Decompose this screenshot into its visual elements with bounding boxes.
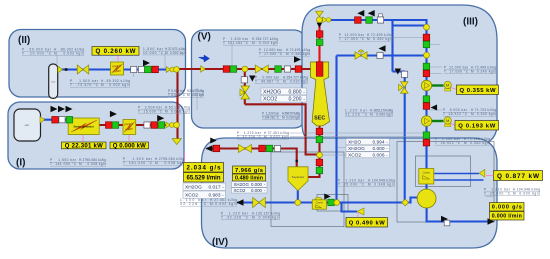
sensor green (box I row2) <box>112 122 119 129</box>
label Q 0.000 kW <box>110 142 149 149</box>
svg-text:-: - <box>303 89 305 95</box>
wire blue pipe separator bottom outlet <box>297 190 299 202</box>
sensor green 2 (box V) <box>275 66 282 73</box>
heater steam generator (box I) <box>68 118 99 135</box>
svg-text:Separator: Separator <box>292 175 305 179</box>
svg-text:M 0.002 kg/s: M 0.002 kg/s <box>210 202 237 206</box>
junction dot <box>65 68 68 71</box>
label Q 0.193 kW <box>455 121 499 131</box>
svg-text:0.017: 0.017 <box>208 185 220 191</box>
svg-text:M: M <box>446 118 449 123</box>
vessel H2O tank <box>14 109 41 141</box>
sensor red (box IV top row) <box>213 145 220 152</box>
svg-text:M 0.008 kg/s: M 0.008 kg/s <box>252 216 280 220</box>
svg-text:T 17.000 °C: T 17.000 °C <box>339 37 365 41</box>
system boundary box (I) <box>8 102 184 169</box>
leader pink to flow label <box>184 152 186 163</box>
svg-text:M 0.010 kg/s: M 0.010 kg/s <box>282 116 300 120</box>
wire dark red pipe box IV top row <box>207 149 297 167</box>
leader line pump outlet measurement <box>493 193 495 222</box>
svg-text:XCO2: XCO2 <box>234 188 247 193</box>
outlet triangle H2O vessel <box>40 116 45 123</box>
flow arrow left 3 <box>379 45 386 52</box>
wire blue pipe cooler drain branch <box>342 203 358 212</box>
svg-text:Q 0.000 kW: Q 0.000 kW <box>113 144 146 150</box>
svg-text:Q 0.193 kW: Q 0.193 kW <box>458 123 495 129</box>
leader line box V text1 <box>231 44 233 66</box>
svg-text:T 161.000 °C: T 161.000 °C <box>123 161 153 165</box>
svg-text:0.000: 0.000 <box>372 146 384 152</box>
sensor green (box I row2b) <box>158 122 165 129</box>
leader ticks compressor1 text <box>430 66 442 68</box>
sensor red (box V) <box>223 66 230 73</box>
leader pink heater to Q label <box>117 55 119 61</box>
wire blue vertical pipe compressor chain x=426.5 <box>425 27 427 190</box>
pump circle <box>417 189 436 208</box>
flow arrow 3 <box>66 106 73 113</box>
inlet triangle (box V) <box>201 66 206 73</box>
svg-text:M 0.340 kg/s: M 0.340 kg/s <box>286 52 310 56</box>
flow arrow right small <box>210 138 217 144</box>
valve V4 (cooler row) <box>253 198 266 208</box>
flow arrow cooler <box>324 194 331 200</box>
label 65.529 l/min <box>184 173 224 183</box>
wire dark red pipe box II to box V main line <box>177 68 312 70</box>
sensor green (cooler row) <box>328 199 335 206</box>
svg-text:0.800: 0.800 <box>289 89 302 95</box>
valve 3-way (x405 line) <box>401 82 409 94</box>
wire bright red pipe into SEC top <box>318 20 320 63</box>
svg-text:65.529 l/min: 65.529 l/min <box>187 175 221 181</box>
heater E2 electric heater (box I) <box>123 120 136 135</box>
valve white pump outlet <box>444 220 450 226</box>
svg-text:(IV): (IV) <box>212 237 228 248</box>
svg-text:T 32.226 °C: T 32.226 °C <box>221 216 249 220</box>
wire blue pipe cooler row (box IV) <box>237 201 406 203</box>
svg-text:M 0.348 kg/s: M 0.348 kg/s <box>368 182 395 186</box>
sensor green (SEC feed) <box>316 39 323 46</box>
svg-text:M 0.010 kg/s: M 0.010 kg/s <box>187 93 204 97</box>
valve white (box I row2) <box>144 122 150 128</box>
valve control with dome (box III) <box>355 52 367 60</box>
sensor red (chain3) <box>423 103 430 110</box>
svg-text:XCO2: XCO2 <box>348 153 361 159</box>
shaft compressor 1 <box>432 84 444 86</box>
svg-text:T 151.164 °C: T 151.164 °C <box>223 41 249 45</box>
wire blue duct line air cooler lower <box>434 179 484 181</box>
air cooler box (box IV right) <box>419 169 434 185</box>
node mixing (box V) <box>242 66 248 72</box>
svg-text:M 0.060 kg/s: M 0.060 kg/s <box>370 113 393 117</box>
sensor green (box II) <box>145 66 152 73</box>
label Q 0.260 kW <box>92 47 139 56</box>
svg-text:M 0.002 kg/s: M 0.002 kg/s <box>101 83 130 87</box>
wire blue vertical pipe x=405.5 down to pump row <box>404 72 406 203</box>
label 2.034 g/s <box>184 163 224 173</box>
sensor red (chain2) <box>423 70 430 77</box>
svg-text:SEC: SEC <box>314 116 325 122</box>
frame around pump/cooler subsystem <box>397 142 494 223</box>
svg-text:T 161.000 °C: T 161.000 °C <box>50 162 77 166</box>
svg-text:Q 0.260 kW: Q 0.260 kW <box>96 48 136 55</box>
heater E1 electric heater (box II) <box>111 62 124 75</box>
separator vessel <box>288 167 308 191</box>
frame around separator/cooler subsystem <box>271 152 344 227</box>
system boundary box (III) <box>302 5 497 144</box>
svg-text:-: - <box>303 97 305 103</box>
junction dot separator feed <box>296 160 298 162</box>
label Q 0.355 kW <box>457 85 499 95</box>
wire blue pipe H2O vessel outlet (box I) <box>41 119 73 121</box>
wire blue pipe parallel return line <box>391 20 393 72</box>
svg-text:0.000: 0.000 <box>251 188 263 193</box>
svg-text:M 0.010 kg/s: M 0.010 kg/s <box>283 80 308 84</box>
svg-text:0.000 g/s: 0.000 g/s <box>492 205 522 211</box>
svg-text:0.006: 0.006 <box>372 153 384 159</box>
label 0.480 l/min <box>233 174 266 181</box>
svg-text:T 0.000 °C: T 0.000 °C <box>168 93 186 97</box>
svg-text:2.034 g/s: 2.034 g/s <box>187 164 222 171</box>
flow arrow down (box V) <box>249 76 256 82</box>
svg-text:T 16.922 °C: T 16.922 °C <box>443 112 468 116</box>
svg-text:10.000 °C: 10.000 °C <box>143 51 164 55</box>
leader line pair to compressor chain <box>290 132 425 134</box>
column SEC separator <box>311 62 330 126</box>
svg-text:XH2O: XH2O <box>348 139 361 145</box>
valve white (box I row1) <box>59 117 65 123</box>
sensor green (box I row1) <box>66 117 73 124</box>
flow arrow left 2 <box>368 10 375 16</box>
sensor green (chain3) <box>423 96 430 103</box>
valve small right of node <box>323 17 327 23</box>
svg-text:Q 0.355 kW: Q 0.355 kW <box>460 88 496 94</box>
flow arrow left (box IV top row) <box>206 145 213 152</box>
label XCO2 0.200 <box>261 95 307 102</box>
svg-text:M 0.340 kg/s: M 0.340 kg/s <box>367 37 393 41</box>
leader line XH2O label stack <box>337 147 346 149</box>
wire dark red vertical from node down through white valve and 3-way valve (box V) <box>244 69 246 104</box>
label XH2OG 0.000 <box>346 145 390 151</box>
label XCO2 0.006 <box>346 152 390 158</box>
flow arrow down (x405 line) <box>395 69 402 75</box>
sensor red (SEC chain low1) <box>316 128 323 135</box>
svg-text:T 15.000 °C: T 15.000 °C <box>138 110 163 114</box>
valve white below node (box V) <box>241 77 247 83</box>
svg-text:M 0.008 kg/s: M 0.008 kg/s <box>155 161 185 165</box>
wire dark red branch valve to vent node (box I) <box>169 124 178 126</box>
flow arrow down small <box>317 23 323 28</box>
node junction SEC chain <box>317 152 323 158</box>
compressor stage 2 <box>421 116 431 126</box>
leader ticks compressor2 text <box>430 109 442 111</box>
svg-text:Q 0.490 kW: Q 0.490 kW <box>349 220 386 226</box>
svg-text:0.000 l/min: 0.000 l/min <box>492 214 522 220</box>
flow arrow into SEC <box>294 56 301 63</box>
sensor green (chain1) <box>423 41 430 48</box>
svg-text:M 0.340 kg/s: M 0.340 kg/s <box>471 112 496 116</box>
sensor red 2 (box IV top row) <box>259 145 266 152</box>
svg-text:T 25.000 °C: T 25.000 °C <box>338 182 365 186</box>
leader pink motor1 to Q label <box>451 88 457 90</box>
svg-text:M 0.008 kg/s: M 0.008 kg/s <box>165 110 190 114</box>
label Q 22.301 kW <box>62 142 107 149</box>
motor M1 <box>445 89 451 91</box>
valve relief (box III top row) <box>377 17 383 23</box>
svg-text:Q 0.877 kW: Q 0.877 kW <box>497 173 540 180</box>
svg-text:T 20.000 °C: T 20.000 °C <box>22 51 52 55</box>
valve V1 (box II) <box>77 65 89 74</box>
sensor green (SEC chain low2) <box>316 167 323 174</box>
label XCO2 0.000 (2) <box>232 188 268 193</box>
svg-text:M 0.002 kg/s: M 0.002 kg/s <box>165 51 186 55</box>
svg-text:H2O: H2O <box>25 125 30 127</box>
svg-text:0.000: 0.000 <box>251 182 263 187</box>
svg-text:0.994: 0.994 <box>372 139 384 145</box>
vessel CO2 cylinder <box>49 64 58 98</box>
node mixing vent (box I) <box>174 122 180 128</box>
node diamond pump inlet <box>402 199 409 206</box>
sensor red (box I row2b) <box>151 122 158 129</box>
svg-text:M 0.340 kg/s: M 0.340 kg/s <box>471 70 496 74</box>
wire blue pipe control valve row (box III) <box>337 54 427 56</box>
svg-text:T 104.781 °C: T 104.781 °C <box>262 116 280 120</box>
system boundary box (V) <box>192 30 307 128</box>
svg-text:M: M <box>446 83 449 88</box>
flow arrow left 4 <box>431 105 438 111</box>
node junction 2 (box III right) <box>424 52 430 58</box>
valve white W2 (box II) <box>138 66 144 72</box>
wire dark red branch 3-way valve to SEC bottom chain <box>245 104 317 154</box>
valve white (box V) <box>284 66 290 72</box>
wire dark red pipe SEC bottom chain <box>307 124 320 177</box>
label 0.000 g/s <box>490 203 525 212</box>
svg-text:T 17.000 °C: T 17.000 °C <box>444 70 469 74</box>
wire dark red pipe steam generator outlet (box I) <box>99 124 177 126</box>
node cooler outlet <box>334 200 340 206</box>
sensor green (SEC chain low1) <box>316 136 323 143</box>
valve white (control row) <box>377 52 383 58</box>
svg-text:M 0.000 kg/s: M 0.000 kg/s <box>513 192 540 196</box>
svg-text:T 32.226 °C: T 32.226 °C <box>237 135 262 139</box>
system boundary box (IV) <box>202 138 498 248</box>
svg-text:(V): (V) <box>198 32 211 43</box>
flow arrow pump outlet <box>441 216 448 223</box>
sensor red (box I row2) <box>106 122 113 129</box>
sensor red (chain1) <box>423 34 430 41</box>
svg-text:Steam generator: Steam generator <box>73 124 93 128</box>
label XH2OG 0.017 <box>183 183 226 191</box>
compressor stage 1 <box>421 80 431 90</box>
svg-text:32.226 °C: 32.226 °C <box>345 113 368 117</box>
sensor red (box I row1) <box>52 117 59 124</box>
sensor red (SEC feed) <box>316 31 323 38</box>
svg-text:M 0.008 kg/s: M 0.008 kg/s <box>79 162 106 166</box>
flow arrow left (cooler row) <box>237 199 244 206</box>
svg-text:(III): (III) <box>463 17 478 28</box>
vent funnel down (box I) <box>172 139 181 145</box>
label 7.966 g/s <box>233 166 266 174</box>
vent horn air cooler <box>479 169 485 177</box>
svg-text:XH2OG: XH2OG <box>348 146 365 152</box>
fan icon blue arrow (box V inlet) <box>199 55 210 62</box>
svg-text:T 17.000 °C: T 17.000 °C <box>259 52 283 56</box>
pump glyph small (box II) <box>166 67 170 73</box>
leader line box II text3 <box>164 54 166 69</box>
label XH2OG 0.000 (2) <box>232 182 268 188</box>
sensor green (box V) <box>230 66 237 73</box>
wire blue pipe CO2 vessel outlet (box II) <box>58 68 167 70</box>
svg-text:T 16.922 °C: T 16.922 °C <box>435 141 461 145</box>
wire dark red vertical pipe x=177.5 down to box I <box>176 69 178 139</box>
label XH2OG 0.800 <box>261 88 307 95</box>
leader pink air cooler to Q label <box>486 175 494 177</box>
sensor green (box III top row) <box>366 17 373 24</box>
leader line box II text1 <box>56 54 58 64</box>
svg-text:T 25.000 °C: T 25.000 °C <box>484 192 511 196</box>
flow arrow left 1 <box>357 10 364 16</box>
leader pink cooler to Q label <box>357 213 359 218</box>
system boundary box (II) <box>9 30 186 98</box>
svg-text:M 0.010 kg/s: M 0.010 kg/s <box>252 41 278 45</box>
wire blue vertical pipe x=336.5 down to cooler row <box>335 56 337 203</box>
node separator outlet <box>295 200 301 206</box>
wire blue pipe into pump inlet <box>406 198 418 203</box>
svg-text:Q 22.301 kW: Q 22.301 kW <box>65 144 103 150</box>
frame around air cooler <box>416 156 471 187</box>
label Q 0.877 kW <box>494 171 543 181</box>
svg-text:(II): (II) <box>18 35 30 46</box>
leader pink steam gen to Q label <box>82 135 84 142</box>
leader pink motor2 to Q label <box>451 123 455 126</box>
label XCO2 0.983 <box>183 191 226 199</box>
sensor red (SEC chain low2) <box>316 159 323 166</box>
shaft compressor 2 <box>432 120 444 122</box>
flow arrow 1 <box>51 106 58 113</box>
valve white (x405 line) <box>402 71 408 77</box>
sensor green (chain2) <box>423 63 430 69</box>
sensor green (box IV top row) <box>266 145 273 152</box>
flow arrow above row2 <box>110 111 117 118</box>
wire blue duct line air cooler upper <box>434 173 480 175</box>
sensor red 2 (box V) <box>295 66 302 73</box>
label Q 0.490 kW <box>346 218 388 228</box>
flow arrow <box>143 60 150 67</box>
svg-text:XH2OG: XH2OG <box>234 182 250 187</box>
valve white (box IV top row) <box>274 145 280 151</box>
svg-text:Cooler: Cooler <box>423 172 431 175</box>
flow arrow 2 <box>58 106 65 113</box>
svg-text:XCO2: XCO2 <box>263 97 277 103</box>
svg-text:XH2OG: XH2OG <box>263 89 281 95</box>
outlet triangle CO2 vessel <box>58 66 63 73</box>
svg-text:(I): (I) <box>16 158 25 169</box>
svg-text:0.480 l/min: 0.480 l/min <box>235 175 263 181</box>
sensor red (box III top row) <box>355 17 362 24</box>
sensor green (chain4) <box>423 132 430 139</box>
vent funnel up (box III top) <box>316 11 324 16</box>
valve V2 (box V) <box>255 65 268 73</box>
node junction (box III right) <box>424 24 430 30</box>
svg-text:7.966 g/s: 7.966 g/s <box>235 168 263 174</box>
wire blue pipe box III top row <box>330 20 427 27</box>
svg-text:XH2OG: XH2OG <box>185 185 202 191</box>
frame around cooler <box>317 195 348 212</box>
node vent (box III) <box>317 17 323 23</box>
leader pink heater2 to Q label <box>128 135 130 142</box>
sensor red (box II) <box>152 66 159 73</box>
label 0.000 l/min <box>490 212 525 221</box>
svg-text:M 0.002 kg/s: M 0.002 kg/s <box>264 135 289 139</box>
svg-text:M 0.340 kg/s: M 0.340 kg/s <box>464 141 490 145</box>
sensor red (chain4) <box>423 139 430 146</box>
svg-text:M 0.002 kg/s: M 0.002 kg/s <box>54 51 84 55</box>
motor M2 <box>445 124 451 126</box>
svg-text:T 96.687 °C: T 96.687 °C <box>255 80 280 84</box>
svg-text:Cooler: Cooler <box>316 202 324 205</box>
leader ticks box III top text <box>394 37 424 39</box>
flow arrow row2b <box>157 115 164 122</box>
svg-text:T -73.570 °C: T -73.570 °C <box>70 83 99 87</box>
valve V3 (box IV top row) <box>239 145 252 153</box>
label XH2O 0.994 <box>346 139 390 145</box>
cooler box (box IV) <box>315 197 322 200</box>
vent horn cooler drain <box>357 208 364 215</box>
svg-text:0.200: 0.200 <box>289 97 302 103</box>
wire blue pipe pump outlet <box>427 207 489 222</box>
arrowhead pump outlet line <box>488 218 495 224</box>
valve white W1 (box II) <box>131 66 137 72</box>
valve 3-way (box V) <box>241 86 250 99</box>
node mixing (box II outlet) <box>174 67 180 73</box>
pump glyph small (box I) <box>166 122 170 128</box>
